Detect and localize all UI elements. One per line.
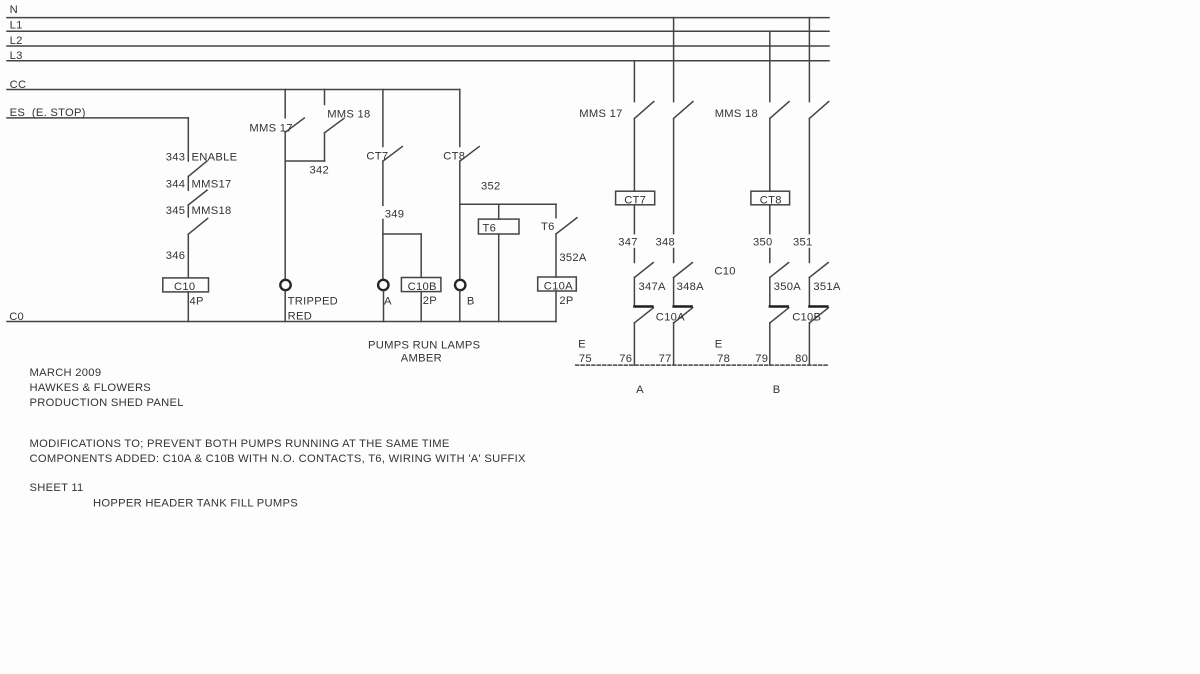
wire ES horizontal — [7, 117, 188, 119]
contact MMS17 pole2 blade — [674, 102, 693, 119]
svg-text:MMS 17: MMS 17 — [579, 108, 622, 120]
contact MMS17 blade (lamp branch) — [285, 118, 304, 132]
wire 345 segment — [187, 205, 189, 217]
svg-text:B: B — [773, 384, 781, 396]
svg-text:349: 349 — [385, 208, 405, 220]
rail L3 — [7, 60, 829, 62]
contact C10A pole1 blade — [634, 308, 653, 323]
svg-text:77: 77 — [659, 353, 672, 365]
wire 348 — [673, 119, 675, 234]
svg-text:L1: L1 — [10, 20, 23, 32]
wire lamp to C0 — [284, 291, 286, 322]
wire branch to C10B — [383, 233, 421, 235]
wire down to timer T6 — [498, 204, 500, 219]
wire to terminal 76 — [633, 323, 635, 365]
wire C10B to C0 — [420, 292, 422, 322]
svg-text:C0: C0 — [9, 311, 24, 323]
svg-text:350A: 350A — [774, 281, 802, 293]
svg-text:N: N — [10, 4, 18, 16]
svg-text:L2: L2 — [10, 35, 23, 47]
rail C0 — [7, 321, 556, 323]
svg-text:HOPPER HEADER TANK FILL PUMPS: HOPPER HEADER TANK FILL PUMPS — [93, 498, 298, 510]
svg-text:76: 76 — [619, 353, 632, 365]
svg-text:348: 348 — [656, 236, 676, 248]
wire from CC end down to CT8 contact — [459, 90, 461, 147]
svg-text:347: 347 — [618, 236, 638, 248]
coil C10A box — [538, 277, 577, 291]
coil CT7 box — [616, 191, 655, 205]
svg-text:MMS 18: MMS 18 — [327, 108, 370, 120]
wire from CC to CT7 contact — [382, 90, 384, 147]
wire 347A down — [633, 278, 635, 306]
svg-text:E: E — [578, 338, 586, 350]
wire B1 to CT8 — [769, 119, 771, 192]
terminal rail E (dashed) — [576, 364, 829, 366]
svg-text:80: 80 — [795, 353, 808, 365]
svg-text:C10A: C10A — [656, 312, 685, 324]
svg-text:2P: 2P — [423, 295, 437, 307]
svg-text:A: A — [636, 384, 644, 396]
svg-text:TRIPPED: TRIPPED — [288, 295, 338, 307]
svg-text:CT7: CT7 — [366, 150, 388, 162]
rail L2 — [7, 45, 829, 47]
wire 348 stub — [673, 249, 675, 263]
lamp TRIPPED RED — [280, 280, 290, 290]
contact MMS18 pole2 blade — [809, 102, 828, 119]
contact 348A blade — [674, 263, 693, 278]
wire MMS17 contact to lamp — [284, 132, 286, 278]
svg-text:ES (E. STOP): ES (E. STOP) — [10, 107, 86, 119]
coil CT8 box — [751, 191, 790, 205]
contact C10B pole1 blade — [770, 308, 789, 323]
coil C10 box — [163, 278, 209, 292]
wire T6 to C0 — [498, 234, 500, 322]
wire 351 — [808, 119, 810, 234]
svg-text:C10B: C10B — [792, 312, 821, 324]
wire B2 from N — [808, 18, 810, 102]
contact MMS17 pole1 blade — [634, 102, 653, 119]
wire 350 stub — [769, 249, 771, 263]
svg-text:345: 345 — [166, 205, 186, 217]
svg-text:L3: L3 — [10, 50, 23, 62]
wire from CC to MMS17 lamp contact — [284, 90, 286, 118]
wire from CC to MMS18 contact — [324, 90, 326, 105]
svg-text:344: 344 — [166, 178, 186, 190]
contact T6 blade — [556, 218, 577, 234]
svg-text:CT7: CT7 — [624, 194, 646, 206]
wire MMS18 contact down — [324, 133, 326, 161]
wire A2 from N — [673, 18, 675, 102]
contact MMS18 pole1 blade — [770, 102, 789, 119]
wire C10A to C0 — [555, 291, 557, 322]
wire C10 to C0 — [187, 292, 189, 322]
contact MMS17 blade (left branch) — [188, 190, 207, 205]
coil C10B box — [401, 278, 441, 292]
contact CT7 blade — [383, 147, 402, 162]
wire A1 to CT7 — [633, 119, 635, 192]
svg-text:75: 75 — [579, 353, 592, 365]
wire stub to T6 contact — [555, 204, 557, 218]
wire 350A down — [769, 278, 771, 306]
svg-text:351A: 351A — [813, 281, 841, 293]
svg-text:COMPONENTS ADDED: C10A & C10B: COMPONENTS ADDED: C10A & C10B WITH N.O. … — [30, 453, 527, 465]
svg-text:351: 351 — [793, 236, 813, 248]
svg-text:MMS 18: MMS 18 — [715, 108, 758, 120]
wire 351A down — [808, 278, 810, 306]
contact 351A blade — [809, 263, 828, 278]
contact 350A blade — [770, 263, 789, 278]
wire 344 segment — [187, 176, 189, 190]
svg-text:HAWKES & FLOWERS: HAWKES & FLOWERS — [30, 382, 152, 394]
svg-text:348A: 348A — [677, 281, 705, 293]
svg-text:MARCH 2009: MARCH 2009 — [30, 367, 102, 379]
svg-text:352A: 352A — [559, 252, 587, 264]
svg-text:MMS17: MMS17 — [192, 178, 232, 190]
wire down to coil C10B — [420, 234, 422, 278]
svg-text:PUMPS RUN LAMPS: PUMPS RUN LAMPS — [368, 339, 480, 351]
wire 349 vertical upper — [382, 161, 384, 205]
wire A1 from L3 — [633, 61, 635, 102]
svg-text:78: 78 — [717, 353, 730, 365]
wire lamp B to C0 — [459, 291, 461, 322]
wire 343 vertical from ES — [187, 118, 189, 161]
wire CT8 to lamp B — [459, 161, 461, 278]
svg-text:352: 352 — [481, 180, 501, 192]
contact CT8 blade — [460, 147, 479, 162]
contact MMS18 blade (left branch) — [188, 218, 207, 234]
svg-text:ENABLE: ENABLE — [192, 151, 238, 163]
svg-text:MODIFICATIONS TO; PREVENT BOTH: MODIFICATIONS TO; PREVENT BOTH PUMPS RUN… — [30, 438, 450, 450]
svg-text:CC: CC — [10, 79, 27, 91]
svg-text:T6: T6 — [483, 222, 497, 234]
svg-text:T6: T6 — [541, 221, 555, 233]
svg-text:346: 346 — [166, 250, 186, 262]
contact C10A pole2 blade — [674, 308, 693, 323]
wire 348A down — [673, 278, 675, 306]
svg-text:C10: C10 — [714, 265, 735, 277]
svg-text:C10: C10 — [174, 281, 195, 293]
wire to terminal 80 — [808, 323, 810, 365]
wire 352 horizontal — [460, 203, 556, 205]
svg-text:347A: 347A — [639, 281, 667, 293]
svg-text:CT8: CT8 — [443, 150, 465, 162]
svg-text:4P: 4P — [190, 296, 204, 308]
contact C10A pole1 bar — [633, 305, 653, 308]
wire B1 from L1 — [769, 31, 771, 101]
contact 347A blade — [634, 263, 653, 278]
contact C10B pole2 blade — [809, 308, 828, 323]
svg-text:350: 350 — [753, 236, 773, 248]
contact ENABLE blade — [188, 161, 207, 176]
svg-text:C10B: C10B — [408, 281, 437, 293]
wire to terminal 79 — [769, 323, 771, 365]
svg-text:2P: 2P — [559, 295, 573, 307]
wire 350 — [769, 205, 771, 234]
svg-text:SHEET 11: SHEET 11 — [30, 482, 84, 494]
timer T6 box — [478, 219, 519, 234]
rail L1 — [7, 30, 829, 32]
wire 349 vertical lower to lamp A — [382, 220, 384, 279]
lamp A — [378, 280, 388, 290]
svg-text:CT8: CT8 — [760, 194, 782, 206]
wire 351 stub — [808, 249, 810, 263]
svg-text:AMBER: AMBER — [401, 353, 442, 365]
svg-text:MMS18: MMS18 — [192, 205, 232, 217]
svg-text:79: 79 — [755, 353, 768, 365]
wire 347 — [633, 205, 635, 234]
wire 342 horizontal — [285, 160, 324, 162]
contact MMS18 blade (lamp branch) — [325, 119, 344, 133]
contact C10B pole1 bar — [769, 305, 789, 308]
svg-text:342: 342 — [310, 164, 330, 176]
wire to terminal 77 — [673, 323, 675, 365]
svg-text:343: 343 — [166, 151, 186, 163]
svg-text:RED: RED — [288, 311, 312, 323]
wire 352A — [555, 234, 557, 277]
svg-text:PRODUCTION SHED PANEL: PRODUCTION SHED PANEL — [30, 397, 184, 409]
contact C10A pole2 bar — [672, 305, 692, 308]
wire 346 segment — [187, 234, 189, 278]
contact C10B pole2 bar — [808, 305, 828, 308]
svg-text:E: E — [715, 338, 723, 350]
svg-text:A: A — [384, 295, 392, 307]
rail CC — [7, 89, 460, 91]
svg-text:C10A: C10A — [544, 280, 573, 292]
svg-text:B: B — [467, 296, 475, 308]
lamp B — [455, 280, 465, 290]
wire lamp A to C0 — [383, 291, 385, 322]
rail N — [7, 17, 829, 19]
svg-text:MMS 17: MMS 17 — [249, 122, 292, 134]
wire 347 stub — [633, 249, 635, 263]
